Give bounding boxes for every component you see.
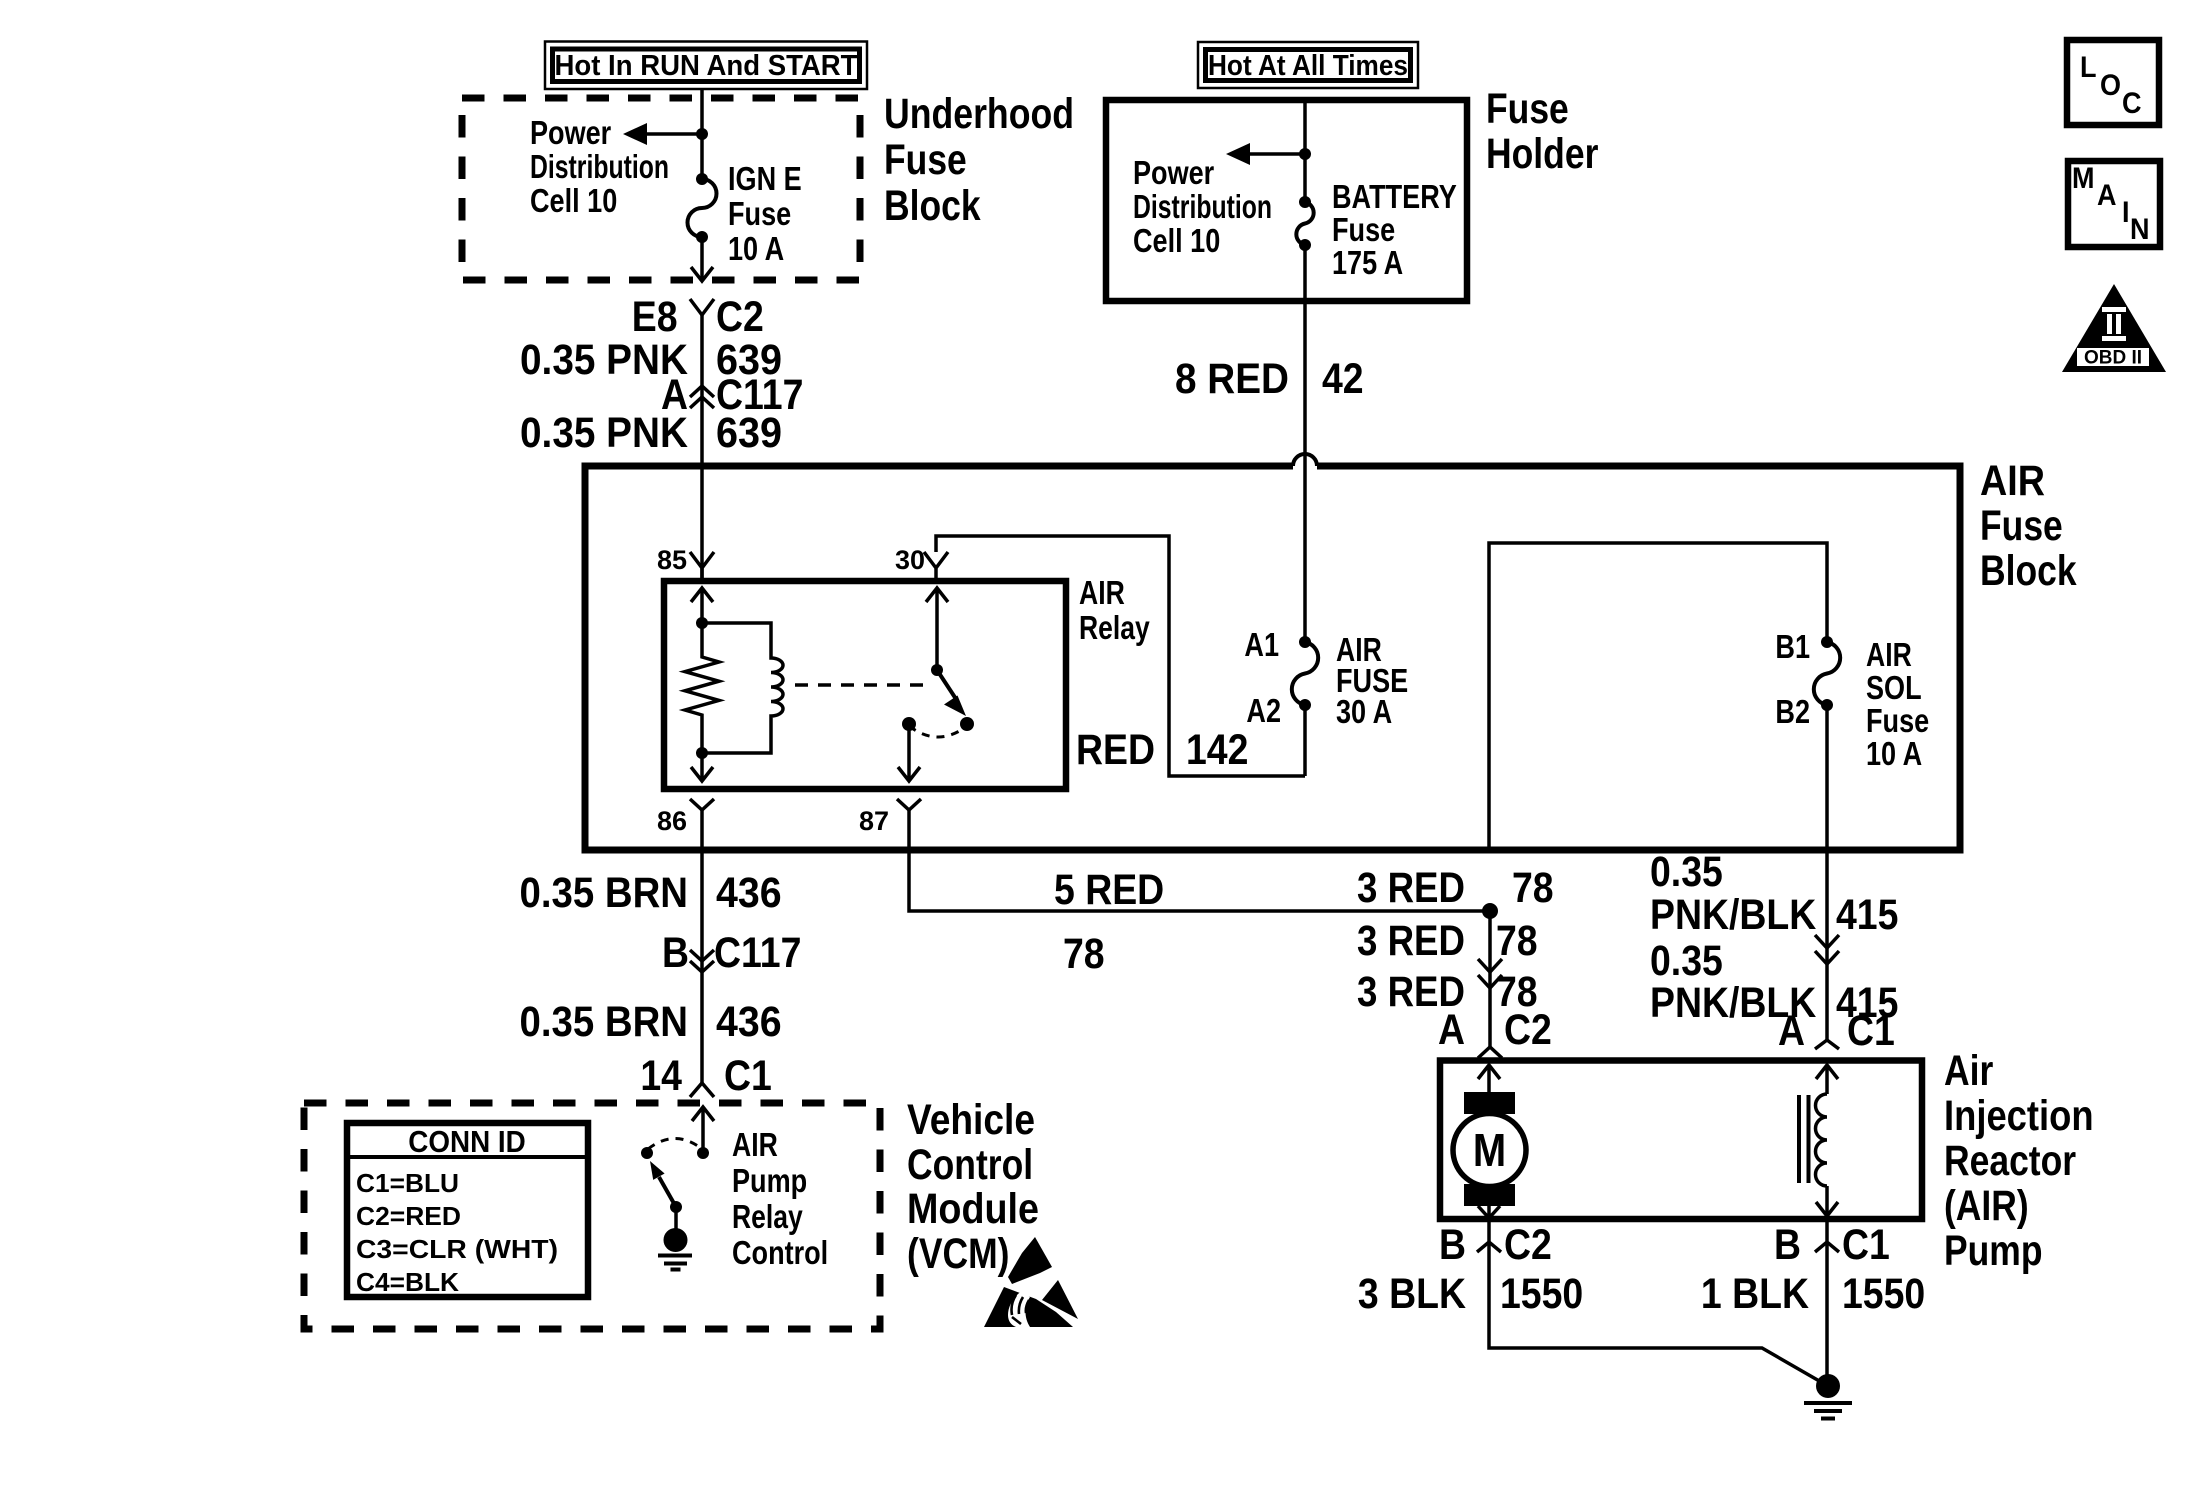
svg-text:0.35 BRN: 0.35 BRN: [520, 998, 689, 1046]
svg-text:5 RED: 5 RED: [1054, 866, 1164, 914]
wire 1 BLK 1550 to ground: [1701, 1242, 1925, 1386]
label AIR SOL Fuse 10 A: [1866, 636, 1929, 772]
wire 0.35 PNK/BLK 415 from AIR SOL fuse to pump solenoid: [1825, 705, 1829, 1040]
svg-text:Reactor: Reactor: [1944, 1137, 2076, 1185]
wire 5 RED 78 from pin 87 to junction: [909, 810, 1490, 978]
svg-text:1550: 1550: [1842, 1270, 1925, 1318]
svg-text:(VCM): (VCM): [907, 1230, 1010, 1278]
svg-text:Vehicle: Vehicle: [907, 1096, 1035, 1144]
svg-text:Power: Power: [530, 114, 611, 151]
svg-text:M: M: [2072, 162, 2095, 195]
svg-text:436: 436: [716, 998, 782, 1046]
label 0.35 PNK/BLK 415 (upper): [1650, 848, 1898, 939]
svg-text:C2: C2: [716, 293, 764, 341]
svg-text:30 A: 30 A: [1336, 693, 1392, 730]
label RED 142: [1076, 726, 1248, 774]
wire 3 RED 78 down to AIR pump: [1488, 911, 1492, 1047]
label AIR FUSE 30 A: [1336, 631, 1408, 730]
wire arrow up to 14 C1 connector: [692, 1107, 714, 1153]
svg-text:0.35 PNK: 0.35 PNK: [520, 409, 688, 457]
fuse IGN E 10 A: [688, 173, 717, 243]
dashed link coil to switch: [795, 683, 929, 687]
label Underhood Fuse Block: [884, 90, 1074, 230]
wire arrow to power distribution (fuse holder): [1226, 143, 1305, 165]
relay box AIR Relay: [664, 581, 1066, 789]
wire 0.35 PNK 639 (upper): [520, 315, 782, 581]
symbol OBD II triangle: [2062, 284, 2166, 372]
svg-text:78: 78: [1512, 864, 1554, 912]
connector B C1 fork below pump: [1774, 1221, 1890, 1269]
svg-text:C1: C1: [1842, 1221, 1890, 1269]
svg-text:14: 14: [640, 1052, 682, 1100]
svg-text:Control: Control: [732, 1234, 828, 1271]
label BATTERY Fuse 175 A: [1332, 178, 1457, 281]
svg-text:Air: Air: [1944, 1047, 1994, 1095]
svg-text:PNK/BLK: PNK/BLK: [1650, 891, 1816, 939]
svg-text:415: 415: [1836, 891, 1898, 939]
label AIR Fuse Block: [1980, 457, 2077, 595]
label AIR Pump Relay Control: [732, 1126, 828, 1271]
svg-text:Power: Power: [1133, 154, 1214, 191]
svg-text:C1: C1: [1847, 1007, 1895, 1055]
svg-text:B: B: [1774, 1221, 1801, 1269]
svg-text:10 A: 10 A: [1866, 735, 1922, 772]
node junction dot at power distribution tap: [696, 128, 708, 140]
svg-text:Module: Module: [907, 1185, 1039, 1233]
svg-text:B2: B2: [1775, 693, 1810, 730]
svg-text:RED: RED: [1076, 726, 1155, 774]
relay switch common arrow from pin 30: [926, 588, 948, 670]
node coil top junction: [696, 617, 708, 629]
coil (relay winding): [702, 623, 783, 753]
connector A C117 chevrons: [661, 371, 803, 419]
label Power Distribution Cell 10 (underhood): [530, 114, 669, 219]
wire from AIR FUSE A2 down: [1303, 705, 1307, 776]
node switch throw contact dot: [960, 717, 974, 731]
wire from Hot In RUN header down to IGN E fuse: [700, 89, 704, 179]
header box Hot At All Times: [1198, 42, 1418, 88]
svg-text:C117: C117: [714, 929, 801, 977]
wire 3 BLK 1550 to ground: [1358, 1242, 1828, 1386]
svg-text:I: I: [2122, 196, 2130, 229]
motor M symbol: [1453, 1065, 1526, 1218]
pin 87 fork connector: [859, 799, 921, 836]
svg-text:0.35: 0.35: [1650, 848, 1723, 896]
svg-text:Pump: Pump: [732, 1162, 807, 1199]
relay coil branch arrow down to pin 86: [691, 753, 713, 781]
wire pivot to ground ball: [674, 1207, 678, 1235]
svg-text:Fuse: Fuse: [1332, 211, 1395, 248]
svg-text:1 BLK: 1 BLK: [1701, 1270, 1809, 1318]
label AIR Relay: [1079, 574, 1150, 646]
label IGN E Fuse 10 A: [728, 160, 802, 267]
svg-text:42: 42: [1322, 355, 1364, 403]
label Power Distribution Cell 10 (fuse holder): [1133, 154, 1272, 259]
pin 30 fork connector: [895, 545, 948, 581]
AIR pump box: [1440, 1061, 1922, 1220]
pin 85 fork connector: [657, 545, 714, 581]
connector B C117 chevrons: [662, 929, 801, 977]
connector 14 C1 fork at VCM: [640, 1052, 771, 1100]
fuse AIR SOL Fuse 10 A: [1814, 636, 1840, 711]
dashed actuation arc between contacts: [909, 726, 967, 737]
svg-text:Cell 10: Cell 10: [530, 182, 617, 219]
svg-text:L: L: [2080, 51, 2097, 84]
svg-text:AIR: AIR: [732, 1126, 778, 1163]
svg-text:IGN E: IGN E: [728, 160, 802, 197]
svg-text:A: A: [2097, 179, 2117, 212]
svg-text:N: N: [2130, 213, 2150, 246]
wire from fuse to connector E8, arrowhead at dashed edge: [691, 237, 713, 281]
label 0.35 BRN 436 (upper): [520, 869, 782, 917]
node driver pivot dot: [670, 1201, 682, 1213]
svg-text:Block: Block: [884, 182, 981, 230]
label 3 RED 78 (above junction): [1357, 864, 1554, 912]
svg-text:C1=BLU: C1=BLU: [356, 1168, 459, 1198]
svg-text:B: B: [1439, 1221, 1466, 1269]
solenoid coil symbol: [1799, 1065, 1838, 1216]
svg-text:AIR: AIR: [1980, 457, 2045, 505]
VCM dashed box: [304, 1103, 880, 1329]
connector A C2 fork at AIR pump: [1438, 1006, 1552, 1058]
fuse AIR FUSE 30 A: [1292, 636, 1318, 711]
label 0.35 BRN 436 (lower): [520, 998, 782, 1046]
svg-text:SOL: SOL: [1866, 669, 1922, 706]
ground G404 symbol: [1804, 1374, 1852, 1419]
label Fuse Holder: [1486, 85, 1599, 178]
svg-text:Block: Block: [1980, 547, 2077, 595]
svg-text:78: 78: [1063, 930, 1105, 978]
label 0.35 PNK/BLK 415 (lower): [1650, 937, 1898, 1027]
svg-text:3 RED: 3 RED: [1357, 864, 1465, 912]
svg-text:AIR: AIR: [1079, 574, 1125, 611]
wire 0.35 PNK 639 (lower) label: [520, 409, 782, 457]
svg-text:85: 85: [657, 545, 687, 575]
fuse BATTERY 175 A: [1296, 196, 1313, 251]
node junction dot battery feed: [1299, 148, 1311, 160]
svg-text:87: 87: [859, 806, 889, 836]
AIR fuse block box with hop over battery wire: [585, 466, 1960, 850]
switch blade with arrowhead: [937, 670, 966, 716]
svg-text:E8: E8: [632, 293, 688, 341]
svg-text:Control: Control: [907, 1141, 1033, 1189]
label Vehicle Control Module (VCM): [907, 1096, 1039, 1278]
svg-text:O: O: [2100, 69, 2121, 102]
svg-text:8 RED: 8 RED: [1175, 355, 1289, 403]
CONN ID table: [347, 1123, 588, 1297]
svg-text:639: 639: [716, 409, 782, 457]
svg-text:Relay: Relay: [1079, 609, 1150, 646]
wire from pin 30 up over to AIR FUSE A2: [936, 536, 1305, 776]
svg-text:30: 30: [895, 545, 925, 575]
resistor (relay): [685, 623, 719, 753]
connector B C2 fork below pump: [1439, 1221, 1552, 1269]
node coil bottom junction: [696, 747, 708, 759]
node driver contact dot: [641, 1147, 653, 1159]
wire arrow to power distribution cell 10: [623, 123, 702, 145]
svg-text:Fuse: Fuse: [728, 195, 791, 232]
svg-text:A1: A1: [1244, 626, 1279, 663]
svg-text:AIR: AIR: [1866, 636, 1912, 673]
svg-text:3 BLK: 3 BLK: [1358, 1270, 1466, 1318]
svg-text:0.35: 0.35: [1650, 937, 1723, 985]
svg-text:86: 86: [657, 806, 687, 836]
svg-text:BATTERY: BATTERY: [1332, 178, 1457, 215]
pin 86 fork connector: [657, 799, 714, 836]
svg-text:B: B: [662, 929, 689, 977]
connector chevrons in 3 RED wire: [1478, 959, 1502, 988]
connector A C1 fork at AIR pump: [1778, 1007, 1895, 1055]
wire pin 87 contact down arrow: [898, 724, 920, 781]
label 3 RED 78 (below junction): [1357, 917, 1538, 965]
svg-text:Distribution: Distribution: [1133, 188, 1272, 225]
svg-text:175 A: 175 A: [1332, 244, 1403, 281]
connector chevrons in PNK/BLK wire: [1815, 935, 1839, 964]
node driver output dot: [697, 1147, 709, 1159]
svg-text:Pump: Pump: [1944, 1227, 2043, 1275]
wire 0.35 BRN 436 from pin 86 to VCM: [700, 810, 704, 1083]
svg-text:C: C: [2122, 87, 2142, 120]
node junction dot 5 RED / 3 RED: [1482, 903, 1498, 919]
svg-text:Underhood: Underhood: [884, 90, 1074, 138]
svg-text:3 RED: 3 RED: [1357, 917, 1465, 965]
wire 8 RED 42 from battery fuse to AIR fuse block: [1175, 245, 1364, 642]
dashed actuation arc (VCM driver): [648, 1139, 702, 1150]
connector E8 C2 fork: [632, 293, 764, 341]
ground ball and ground symbol (VCM): [658, 1228, 692, 1270]
svg-text:A: A: [1778, 1007, 1805, 1055]
svg-text:C3=CLR (WHT): C3=CLR (WHT): [356, 1234, 558, 1264]
svg-text:Distribution: Distribution: [530, 148, 669, 185]
svg-text:C4=BLK: C4=BLK: [356, 1267, 459, 1297]
label 3 RED 78 (third): [1357, 968, 1538, 1016]
wire hop arc at battery wire crossing: [1293, 454, 1317, 466]
svg-text:0.35 BRN: 0.35 BRN: [520, 869, 689, 917]
svg-text:Cell 10: Cell 10: [1133, 222, 1220, 259]
svg-text:OBD II: OBD II: [2084, 348, 2142, 369]
svg-text:C1: C1: [724, 1052, 772, 1100]
driver blade with arrowhead: [650, 1161, 676, 1207]
svg-text:A2: A2: [1246, 692, 1281, 729]
symbol MAIN box: [2068, 161, 2160, 247]
svg-text:C2=RED: C2=RED: [356, 1201, 461, 1231]
svg-text:Fuse: Fuse: [1486, 85, 1569, 133]
svg-text:(AIR): (AIR): [1944, 1182, 2029, 1230]
svg-text:A: A: [1438, 1006, 1465, 1054]
svg-text:78: 78: [1496, 917, 1538, 965]
svg-text:Fuse: Fuse: [884, 136, 967, 184]
node switch pivot dot: [931, 664, 943, 676]
symbol ESD warning triangle: [984, 1237, 1078, 1327]
svg-text:142: 142: [1186, 726, 1248, 774]
wire from fuse holder top to battery fuse: [1303, 100, 1307, 202]
node pin 87 contact dot: [902, 717, 916, 731]
svg-text:10 A: 10 A: [728, 230, 784, 267]
relay coil branch arrow up: [691, 588, 713, 623]
svg-text:M: M: [1473, 1124, 1506, 1176]
svg-text:Hot At All Times: Hot At All Times: [1208, 50, 1408, 82]
svg-text:C2: C2: [1504, 1221, 1552, 1269]
svg-text:CONN ID: CONN ID: [408, 1124, 526, 1159]
svg-text:Fuse: Fuse: [1866, 702, 1929, 739]
svg-text:C2: C2: [1504, 1006, 1552, 1054]
svg-text:Holder: Holder: [1486, 130, 1599, 178]
underhood fuse block dashed box: [462, 98, 860, 280]
header box Hot In RUN And START: [545, 42, 867, 90]
fuse holder box: [1106, 100, 1467, 301]
wire inner loop to AIR SOL fuse B1: [1489, 543, 1827, 850]
svg-text:B1: B1: [1775, 628, 1810, 665]
svg-text:Injection: Injection: [1944, 1092, 2094, 1140]
svg-text:436: 436: [716, 869, 782, 917]
symbol LOC box: [2067, 40, 2159, 125]
svg-text:Hot In RUN And START: Hot In RUN And START: [555, 50, 858, 82]
svg-text:Fuse: Fuse: [1980, 502, 2063, 550]
svg-text:1550: 1550: [1500, 1270, 1583, 1318]
svg-text:Relay: Relay: [732, 1198, 803, 1235]
label Air Injection Reactor (AIR) Pump: [1944, 1047, 2094, 1275]
